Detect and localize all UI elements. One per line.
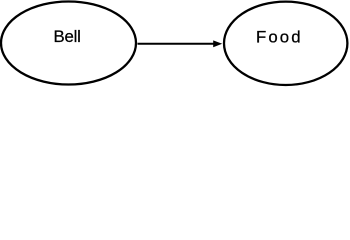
node ellipse Bell (1, 2, 136, 85)
diagram: Bell -> Food (0, 0, 350, 88)
wire arrow shaft (138, 43, 215, 45)
arrowhead (213, 40, 222, 47)
node ellipse Food (224, 2, 347, 85)
svg-text:Bell: Bell (54, 27, 81, 46)
